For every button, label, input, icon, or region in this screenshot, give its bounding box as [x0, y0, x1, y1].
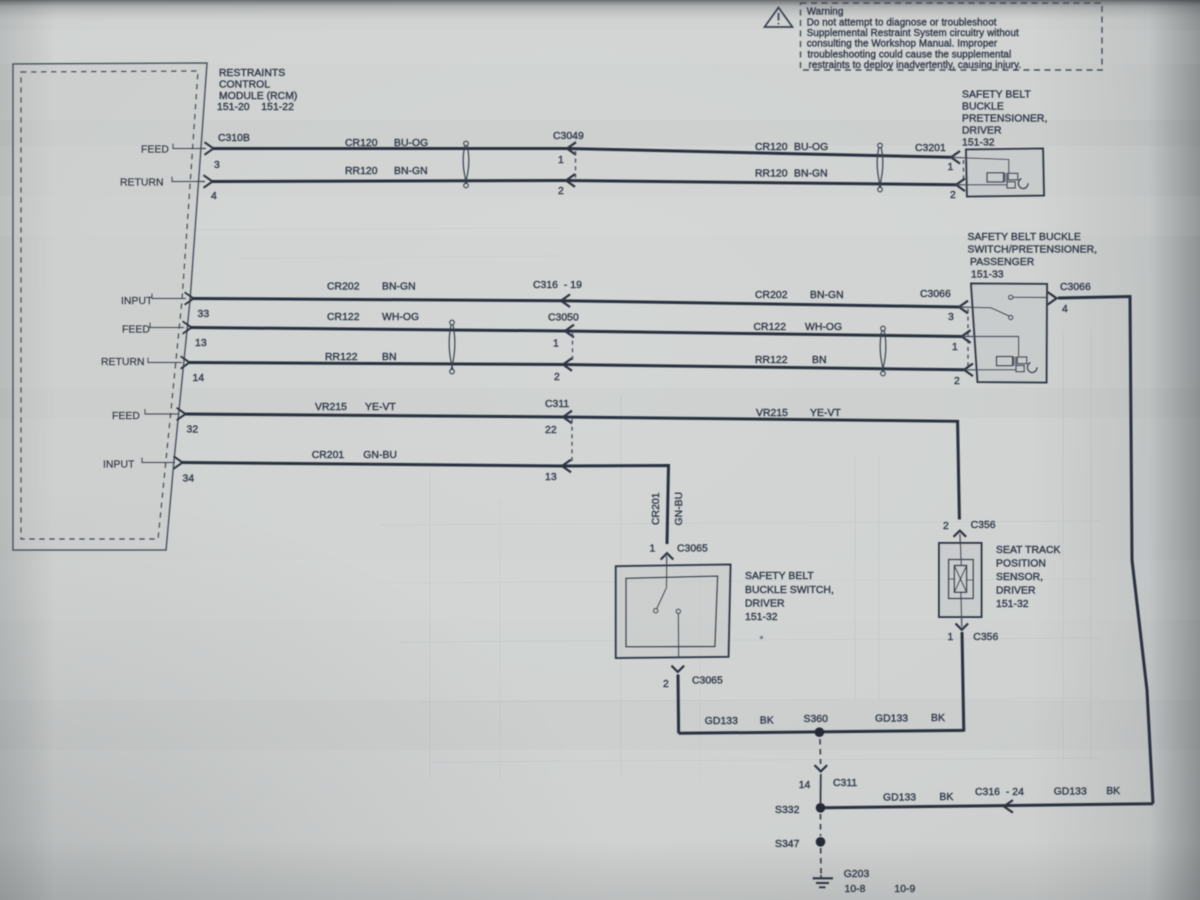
connector C3066 pin 2 arrow — [964, 364, 973, 377]
svg-text:S332: S332 — [775, 805, 800, 816]
safety belt buckle switch driver box U-SBBS — [616, 565, 731, 659]
splice S360 junction dot — [815, 727, 825, 737]
RCM module box inner dashed outline — [21, 71, 198, 539]
svg-text:2: 2 — [663, 679, 669, 690]
svg-text:BUCKLE SWITCH,: BUCKLE SWITCH, — [745, 585, 834, 596]
connector C311 dashed line — [571, 419, 573, 464]
svg-text:INPUT: INPUT — [121, 296, 153, 307]
connector C3201 dashed line — [963, 160, 965, 182]
svg-text:C3201: C3201 — [915, 143, 946, 154]
connector C356 pin 2 number — [943, 521, 949, 532]
connector C3066 pin 4 arrow — [1048, 292, 1057, 305]
svg-text:FEED: FEED — [122, 325, 150, 336]
vertical wire label GN-BU (rotated) — [674, 492, 685, 526]
svg-text:1: 1 — [650, 544, 656, 555]
wire from C356 pin1 down to ground run — [962, 632, 964, 732]
twisted pair symbol right — [877, 143, 883, 192]
svg-text:CR122: CR122 — [327, 312, 360, 323]
pin number 34 — [183, 474, 195, 485]
connector C3050 label — [548, 313, 579, 324]
pin 32 stub wire — [145, 409, 178, 414]
pin 14 arrow — [181, 356, 190, 369]
wire from C3066 pin 4 to ground network (right vertical) — [1058, 297, 1153, 804]
ground label G203 — [844, 869, 870, 880]
ground wire S332 to C316-24 to right vertical — [825, 804, 1153, 808]
wire label RR120 (right) — [755, 169, 788, 180]
svg-text:YE-VT: YE-VT — [810, 408, 841, 419]
svg-text:CR120: CR120 — [345, 138, 378, 149]
svg-text:CR201: CR201 — [651, 492, 662, 525]
splice label S332 — [775, 805, 800, 816]
connector C3065 pin 1 number — [650, 544, 656, 555]
svg-text:G203: G203 — [844, 869, 870, 880]
faint ghost print-through lines — [150, 228, 1100, 780]
svg-text:RR122: RR122 — [755, 355, 788, 366]
vertical wire label CR201 (rotated) — [651, 492, 662, 525]
pin 4 stub wire — [172, 177, 205, 182]
wire label YE-VT (right) — [810, 408, 841, 419]
connector C356 pin 1 number — [948, 632, 954, 643]
svg-text:BN-GN: BN-GN — [394, 166, 428, 177]
safety belt buckle pretensioner driver box U-driver — [966, 149, 1044, 197]
pin 33 stub wire — [152, 294, 186, 299]
wire label BU-OG — [394, 138, 428, 149]
svg-text:DRIVER: DRIVER — [996, 586, 1036, 597]
svg-text:2: 2 — [954, 376, 960, 387]
svg-text:C356: C356 — [973, 632, 998, 643]
ground wire GD133 to S360 — [679, 730, 964, 733]
connector C311 label (bottom) — [833, 778, 857, 789]
connector C3201 pin 2 number — [950, 190, 956, 201]
wire label RR122 — [325, 352, 358, 363]
svg-text:CONTROL: CONTROL — [219, 80, 270, 91]
paper speck — [760, 636, 763, 639]
seat track sensor bottom lead — [961, 617, 963, 627]
wire label BK (right of S360) — [931, 713, 945, 724]
connector C3066 pin 2 number — [954, 376, 960, 387]
svg-text:DRIVER: DRIVER — [962, 126, 1002, 137]
svg-text:SWITCH/PRETENSIONER,: SWITCH/PRETENSIONER, — [968, 245, 1098, 256]
passenger pretensioner pin2 internal lead — [964, 369, 1016, 371]
svg-text:Warning: Warning — [807, 7, 844, 18]
svg-text:SAFETY BELT: SAFETY BELT — [745, 571, 814, 582]
wire label WH-OG — [382, 312, 419, 323]
connector C311 pin 22 arrow — [563, 411, 572, 424]
dashed wire from S347 to ground G203 — [820, 848, 822, 875]
connector C3050 dashed line — [572, 333, 574, 362]
svg-text:2: 2 — [558, 186, 564, 197]
svg-text:CR122: CR122 — [754, 322, 787, 333]
svg-text:PRETENSIONER,: PRETENSIONER, — [962, 114, 1047, 125]
svg-text:1: 1 — [948, 162, 954, 173]
svg-text:Supplemental Restraint System: Supplemental Restraint System circuitry … — [807, 28, 1019, 39]
ground page ref 10-9 — [894, 884, 915, 895]
pin 14 stub wire — [148, 358, 182, 363]
svg-text:RETURN: RETURN — [101, 357, 145, 368]
svg-text:WH-OG: WH-OG — [805, 322, 842, 333]
connector C3201 pin 1 arrow — [951, 151, 960, 164]
connector C3050 pin 1 arrow — [565, 325, 574, 338]
wire VR215 YE-VT (RCM pin32 to seat track sensor) — [185, 414, 959, 520]
svg-text:BK: BK — [1106, 786, 1120, 797]
wire label BK (left of S360) — [760, 716, 774, 727]
svg-text:BK: BK — [931, 713, 945, 724]
svg-text:BN: BN — [382, 352, 397, 363]
svg-text:GD133: GD133 — [883, 793, 916, 804]
svg-text:GN-BU: GN-BU — [363, 450, 397, 461]
svg-text:VR215: VR215 — [756, 408, 788, 419]
pin 33 arrow — [185, 292, 194, 305]
dashed wire from S360 to C311 pin 14 — [819, 739, 822, 764]
connector C3066 label (right) — [1060, 282, 1091, 293]
splice label S347 — [775, 839, 800, 850]
pin 13 arrow — [183, 321, 192, 334]
svg-text:S347: S347 — [775, 839, 800, 850]
connector C316-24 label — [975, 787, 1024, 798]
svg-text:CR202: CR202 — [327, 282, 360, 293]
svg-text:troubleshooting could cause th: troubleshooting could cause the suppleme… — [808, 49, 1012, 60]
RCM pin label INPUT (pin 34) — [103, 460, 135, 471]
svg-text:RR120: RR120 — [345, 166, 378, 177]
connector C311 label — [545, 399, 569, 410]
wire label RR122 (right) — [755, 355, 788, 366]
pin number 32 — [187, 425, 199, 436]
wire label BN — [382, 352, 397, 363]
svg-text:13: 13 — [195, 338, 207, 349]
svg-text:BK: BK — [939, 792, 953, 803]
pin number 4 — [211, 191, 217, 202]
RCM pin label RETURN (pin 4) — [120, 178, 164, 189]
svg-text:1: 1 — [558, 155, 564, 166]
svg-text:1: 1 — [952, 342, 958, 353]
svg-text:RESTRAINTS: RESTRAINTS — [219, 68, 285, 79]
svg-text:FEED: FEED — [112, 411, 140, 422]
svg-text:13: 13 — [545, 472, 557, 483]
warning triangle icon — [765, 8, 793, 28]
svg-text:10-8: 10-8 — [845, 884, 866, 895]
twisted pair symbol middle-right — [880, 326, 886, 376]
connector C3065 pin 2 number — [663, 679, 669, 690]
connector C3066 dashed line — [967, 309, 969, 368]
svg-text:14: 14 — [193, 373, 205, 384]
svg-text:FEED: FEED — [141, 145, 169, 156]
connector C3201 pin 2 arrow — [956, 179, 965, 192]
connector C3066 pin 4 number — [1062, 304, 1068, 315]
wire label GD133 (left of C316-24) — [883, 793, 916, 804]
svg-text:33: 33 — [198, 309, 210, 320]
ground page ref 10-8 — [845, 884, 866, 895]
wire label GN-BU — [363, 450, 397, 461]
wire label GD133 (right of C316-24) — [1054, 787, 1087, 798]
svg-text:GD133: GD133 — [875, 714, 908, 725]
svg-text:BN-GN: BN-GN — [382, 282, 416, 293]
wire from C3065 pin2 down to ground run — [677, 675, 681, 734]
connector C3049 pin 1 arrow — [567, 142, 576, 155]
pin 13 stub wire — [150, 323, 184, 328]
connector C3066 pin 1 number — [952, 342, 958, 353]
RCM pin label FEED (pin 3) — [141, 145, 169, 156]
wire label CR122 (right) — [754, 322, 787, 333]
splice S332 junction dot — [816, 803, 826, 813]
svg-text:YE-VT: YE-VT — [365, 402, 396, 413]
svg-text:restraints to deploy inadverte: restraints to deploy inadvertently, caus… — [809, 60, 1022, 71]
connector C311 pin 14 number — [799, 780, 811, 791]
wire label BK (right of C316-24) — [1106, 786, 1120, 797]
connector C3049 label — [553, 131, 584, 142]
wire label YE-VT — [365, 402, 396, 413]
soft photographic luminance bands — [0, 30, 1200, 750]
wire RR122 BN (RCM pin14 to passenger pin2) — [189, 363, 964, 370]
RCM pin label RETURN (pin 14) — [101, 357, 145, 368]
svg-text:BN: BN — [812, 355, 827, 366]
warning note text — [807, 7, 1022, 72]
wire label BU-OG (right) — [794, 142, 828, 153]
connector C310B label — [218, 133, 250, 144]
svg-text:GN-BU: GN-BU — [674, 492, 685, 526]
wire label BN (right) — [812, 355, 827, 366]
svg-text:PASSENGER: PASSENGER — [970, 257, 1035, 268]
svg-text:GD133: GD133 — [1054, 787, 1087, 798]
svg-text:CR120: CR120 — [755, 142, 788, 153]
svg-text:C3065: C3065 — [677, 544, 708, 555]
dashed wire from S332 to S347 — [820, 814, 822, 836]
svg-text:SENSOR,: SENSOR, — [996, 572, 1043, 583]
svg-text:BN-GN: BN-GN — [794, 169, 828, 180]
connector C3049 pin 2 arrow — [566, 174, 575, 187]
svg-text:POSITION: POSITION — [996, 559, 1046, 570]
svg-text:CR202: CR202 — [755, 290, 788, 301]
svg-text:SAFETY BELT: SAFETY BELT — [962, 90, 1031, 101]
pin number 3 — [214, 160, 220, 171]
pretensioner driver pin 1 internal lead — [951, 157, 1009, 173]
connector C3066 label (left) — [920, 289, 951, 300]
svg-text:14: 14 — [799, 780, 811, 791]
safety belt buckle switch/pretensioner passenger box U-pass — [971, 284, 1047, 383]
wire label BN-GN — [382, 282, 416, 293]
svg-text:C310B: C310B — [218, 133, 250, 144]
wire label CR120 (right) — [755, 142, 788, 153]
svg-text:SEAT TRACK: SEAT TRACK — [996, 545, 1061, 556]
pin 3 arrow — [205, 142, 214, 155]
connector C3066 pin 3 arrow — [959, 301, 968, 314]
svg-text:34: 34 — [183, 474, 195, 485]
svg-text:C3066: C3066 — [1060, 282, 1091, 293]
svg-text:C3049: C3049 — [553, 131, 584, 142]
connector C356 pin 2 arrow (up) — [954, 531, 967, 537]
svg-text:32: 32 — [187, 425, 199, 436]
svg-text:151-20 151-22: 151-20 151-22 — [217, 102, 294, 113]
connector C311 pin 13 number — [545, 472, 557, 483]
ground symbol G203 — [813, 875, 833, 887]
svg-text:2: 2 — [554, 372, 560, 383]
svg-text:3: 3 — [214, 160, 220, 171]
wire label CR120 — [345, 138, 378, 149]
svg-text:DRIVER: DRIVER — [745, 599, 785, 610]
twisted pair symbol middle-left — [449, 320, 455, 374]
wire RR120 BN-GN (RCM pin4 to C3201) — [212, 181, 956, 185]
svg-text:BU-OG: BU-OG — [794, 142, 828, 153]
wire label GD133 (left of S360) — [705, 716, 738, 727]
svg-text:C3050: C3050 — [548, 313, 579, 324]
connector C356 label (bottom) — [973, 632, 998, 643]
pin 34 stub wire — [142, 458, 175, 463]
wire label CR202 — [327, 282, 360, 293]
wire label BN-GN (right) — [794, 169, 828, 180]
wire label CR202 (right) — [755, 290, 788, 301]
connector C316-19 label — [533, 280, 582, 291]
svg-text:4: 4 — [1062, 304, 1068, 315]
RCM pin label FEED (pin 13) — [122, 325, 150, 336]
pretensioner driver pin 2 internal lead — [956, 184, 1007, 186]
connector C3050 pin 2 arrow — [563, 358, 572, 371]
svg-text:SAFETY BELT BUCKLE: SAFETY BELT BUCKLE — [968, 232, 1081, 243]
pin number 33 — [198, 309, 210, 320]
connector C3066 pin 1 arrow — [962, 330, 971, 343]
buckle switch driver lever and contacts — [654, 556, 681, 657]
svg-text:INPUT: INPUT — [103, 460, 135, 471]
svg-text:C316 - 24: C316 - 24 — [975, 787, 1024, 798]
svg-text:151-32: 151-32 — [745, 612, 778, 623]
RCM module box (solid outline) — [13, 63, 207, 550]
connector C3050 pin 1 number — [553, 339, 559, 350]
svg-text:3: 3 — [948, 312, 954, 323]
connector C3065 label (top) — [677, 544, 708, 555]
connector C311 pin 13 arrow — [562, 460, 571, 473]
RCM module title label — [217, 68, 297, 113]
svg-text:Do not attempt to diagnose or: Do not attempt to diagnose or troublesho… — [807, 17, 997, 28]
wire CR201 GN-BU (RCM pin34 to buckle switch) — [182, 463, 669, 545]
twisted pair symbol left — [463, 141, 469, 188]
pin number 14 — [193, 373, 205, 384]
seat track position sensor driver box U-STPS — [939, 543, 982, 617]
RCM pin label INPUT (pin 33) — [121, 296, 153, 307]
wire label GD133 (right of S360) — [875, 714, 908, 725]
seat track position sensor title — [996, 545, 1061, 610]
svg-text:VR215: VR215 — [315, 402, 347, 413]
connector C3049 pin 2 number — [558, 186, 564, 197]
wire label BN-GN (right section) — [810, 290, 844, 301]
svg-text:C311: C311 — [833, 778, 857, 789]
svg-text:C3066: C3066 — [920, 289, 951, 300]
wire from C311 pin14 to S332 — [820, 774, 822, 803]
passenger buckle switch lever and contacts — [959, 295, 1047, 319]
svg-text:BU-OG: BU-OG — [394, 138, 428, 149]
connector C3065 label (bottom) — [692, 676, 723, 687]
svg-text:BUCKLE: BUCKLE — [962, 102, 1004, 113]
safety belt buckle switch/pretensioner passenger title — [968, 232, 1098, 281]
connector C316-19 arrow — [561, 294, 570, 307]
svg-text:C311: C311 — [545, 399, 569, 410]
svg-text:C356: C356 — [971, 520, 996, 531]
connector C3201 label — [915, 143, 946, 154]
svg-text:2: 2 — [950, 190, 956, 201]
connector C311 pin 14 arrow (down) — [815, 765, 828, 771]
connector C3066 pin 3 number — [948, 312, 954, 323]
svg-text:GD133: GD133 — [705, 716, 738, 727]
connector C3065 pin 1 arrow (up) — [661, 553, 674, 559]
wire label CR201 — [312, 450, 345, 461]
wire CR120 BU-OG (RCM pin3 to C3201) — [213, 149, 951, 158]
svg-text:10-9: 10-9 — [894, 884, 915, 895]
connector C3050 pin 2 number — [554, 372, 560, 383]
pin number 13 — [195, 338, 207, 349]
svg-text:BN-GN: BN-GN — [810, 290, 844, 301]
svg-text:22: 22 — [545, 425, 557, 436]
passenger pretensioner pin1 internal lead — [962, 337, 1019, 357]
svg-text:151-33: 151-33 — [971, 270, 1004, 281]
connector C356 pin 1 arrow (down) — [956, 624, 969, 630]
svg-text:MODULE (RCM): MODULE (RCM) — [219, 91, 297, 102]
pretensioner driver squib symbol — [987, 173, 1028, 189]
connector C356 label (top) — [971, 520, 996, 531]
wire label BN-GN — [394, 166, 428, 177]
svg-text:S360: S360 — [804, 714, 829, 725]
pin 34 arrow — [174, 456, 183, 469]
connector C311 pin 22 number — [545, 425, 557, 436]
svg-text:1: 1 — [948, 632, 954, 643]
wire CR202 BN-GN (RCM pin33 to passenger pin3) — [193, 299, 959, 308]
splice S347 junction dot — [816, 837, 826, 847]
connector C316-24 arrow — [1004, 800, 1013, 813]
wire label BK (left of C316-24) — [939, 792, 953, 803]
seat track sensor top lead — [959, 534, 961, 543]
wire label WH-OG (right) — [805, 322, 842, 333]
svg-text:C3065: C3065 — [692, 676, 723, 687]
svg-text:2: 2 — [943, 521, 949, 532]
svg-text:4: 4 — [211, 191, 217, 202]
svg-text:consulting the Workshop Manual: consulting the Workshop Manual. Improper — [807, 39, 998, 50]
svg-text:BK: BK — [760, 716, 774, 727]
connector C3065 pin 2 arrow (down) — [672, 666, 685, 672]
svg-text:WH-OG: WH-OG — [382, 312, 419, 323]
wire label VR215 — [315, 402, 347, 413]
svg-text:RR122: RR122 — [325, 352, 358, 363]
pin 32 arrow — [177, 408, 186, 421]
wire label CR122 — [327, 312, 360, 323]
splice label S360 — [804, 714, 829, 725]
connector C3049 dashed line — [575, 151, 577, 178]
svg-text:1: 1 — [553, 339, 559, 350]
connector C3201 pin 1 number — [948, 162, 954, 173]
pin 3 stub wire — [173, 144, 206, 149]
safety belt buckle switch driver title — [745, 571, 834, 623]
svg-text:CR201: CR201 — [312, 450, 345, 461]
svg-text:151-32: 151-32 — [996, 599, 1029, 610]
svg-text:RR120: RR120 — [755, 169, 788, 180]
RCM pin label FEED (pin 32) — [112, 411, 140, 422]
safety belt buckle pretensioner driver title — [962, 90, 1047, 149]
passenger pretensioner squib symbol — [997, 357, 1038, 373]
svg-text:151-32: 151-32 — [962, 138, 995, 149]
svg-text:C316 - 19: C316 - 19 — [533, 280, 582, 291]
wire label RR120 — [345, 166, 378, 177]
svg-text:RETURN: RETURN — [120, 178, 164, 189]
wire label VR215 (right) — [756, 408, 788, 419]
wire CR122 WH-OG (RCM pin13 to passenger pin1) — [191, 328, 962, 337]
warning note dashed box — [801, 3, 1103, 70]
connector C3049 pin 1 number — [558, 155, 564, 166]
pin 4 arrow — [204, 175, 213, 188]
